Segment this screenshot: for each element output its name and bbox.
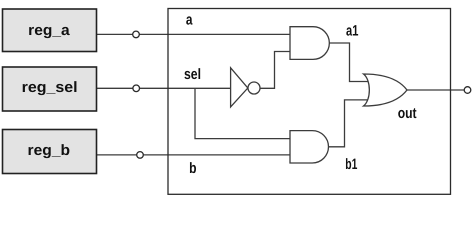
svg-text:b1: b1 xyxy=(345,156,357,173)
svg-text:reg_sel: reg_sel xyxy=(22,79,78,96)
enclosure box xyxy=(168,9,451,195)
wire b1: AND U2 output to OR input xyxy=(329,100,370,147)
node on wire b xyxy=(137,152,144,159)
node out xyxy=(464,87,471,94)
wire b: reg_b output to AND gate U2 input xyxy=(96,154,290,156)
svg-text:out: out xyxy=(398,105,417,122)
AND gate U1 (top) xyxy=(290,27,329,60)
svg-text:sel: sel xyxy=(184,66,201,83)
node on wire sel xyxy=(133,85,140,92)
wire a: reg_a output to AND gate U1 input xyxy=(96,33,290,35)
register reg_sel xyxy=(3,67,97,111)
wire sel: reg_sel output to inverter input xyxy=(96,87,231,89)
wire a1: AND U1 output to OR input xyxy=(329,43,369,82)
wire inverter output to AND gate U1 lower input xyxy=(260,52,290,89)
wire sel branch down to AND gate U2 xyxy=(195,88,290,138)
wire out: OR output to output node xyxy=(407,89,464,91)
svg-text:a1: a1 xyxy=(346,23,358,40)
inverter U3 bubble xyxy=(248,82,260,94)
svg-text:reg_a: reg_a xyxy=(28,22,70,39)
svg-text:reg_b: reg_b xyxy=(28,142,71,159)
OR gate U4 xyxy=(364,74,408,106)
register reg_a xyxy=(3,9,97,52)
svg-text:b: b xyxy=(189,160,196,177)
register reg_b xyxy=(3,130,97,174)
AND gate U2 (bottom) xyxy=(290,131,328,163)
inverter U3 triangle xyxy=(231,68,248,107)
node on wire a xyxy=(133,31,140,38)
svg-text:a: a xyxy=(186,12,193,29)
